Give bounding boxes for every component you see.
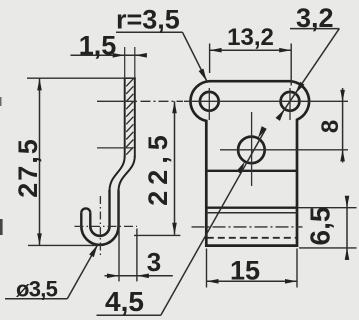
dim 15 line <box>207 280 298 282</box>
svg-text:3: 3 <box>147 247 161 277</box>
hook U-bend outer arc <box>81 226 118 245</box>
center hole horizontal centerline <box>220 149 348 151</box>
dim 1,5 arrows <box>113 53 125 58</box>
strip upper left wall <box>124 78 126 157</box>
top holes horizontal centerline (reference line across views) <box>97 100 137 102</box>
center hole vertical centerline <box>251 112 253 186</box>
svg-text:13,2: 13,2 <box>227 24 274 51</box>
svg-text:6,5: 6,5 <box>305 207 336 246</box>
hook tip rounded cap <box>81 208 90 212</box>
svg-text:8: 8 <box>317 120 344 133</box>
dim 6,5 extension bottom <box>299 247 357 249</box>
svg-text:r=3,5: r=3,5 <box>116 5 180 35</box>
dim 13,2 extension lines <box>209 44 211 74</box>
leader 4,5 <box>97 314 161 316</box>
hook U-bend inner arc <box>90 226 109 236</box>
plate outline <box>190 81 309 245</box>
svg-text:15: 15 <box>230 256 260 286</box>
bend axis dash-dot line <box>192 226 303 228</box>
svg-text:22,5: 22,5 <box>143 129 173 206</box>
dim 6,5 line <box>346 196 348 260</box>
leader 3,2 <box>290 28 339 30</box>
top-left hole vertical centerline <box>208 88 210 120</box>
S-bend right wall <box>119 156 135 191</box>
svg-text:3,2: 3,2 <box>296 3 334 33</box>
bend line 3 <box>206 212 297 214</box>
dim 22,5 extension bottom <box>134 234 180 236</box>
bend line 1 <box>206 170 297 172</box>
dim 27,5 line <box>39 78 41 245</box>
strip upper right wall <box>134 78 136 157</box>
dim 13,2 arrows <box>210 48 222 53</box>
svg-text:4,5: 4,5 <box>105 286 144 317</box>
dim 3 arrows <box>107 274 119 279</box>
hook tip left wall <box>80 213 82 227</box>
dim 27,5 extension bottom <box>28 244 97 246</box>
dim 8 arrows <box>340 90 345 102</box>
lower strip right wall <box>117 190 119 226</box>
dim 22,5 arrows <box>172 101 177 113</box>
lower strip left wall <box>108 190 110 226</box>
scan edge smudges <box>0 97 2 106</box>
dim 6,5 extension top (continuation of bend line 2) <box>298 207 357 209</box>
dim 3 line <box>105 275 173 277</box>
top-right hole <box>281 92 300 111</box>
S-bend left wall <box>110 156 125 191</box>
bend line 2 <box>206 207 298 209</box>
stub line crossing strip at hole height <box>97 147 133 149</box>
dim 27,5 extension top <box>27 77 135 79</box>
svg-text:ø3,5: ø3,5 <box>16 277 58 302</box>
hook tip right wall <box>89 213 91 227</box>
strip top edge <box>124 77 136 79</box>
svg-text:27,5: 27,5 <box>13 137 43 198</box>
hidden hook bottom dashed line <box>207 237 297 239</box>
hatching of strip section <box>126 79 133 155</box>
dim 8 line <box>342 88 344 163</box>
dim 15 arrows <box>207 279 219 284</box>
top-right hole vertical centerline <box>289 88 291 120</box>
dim 1,5 extension lines <box>124 47 126 78</box>
leader diameter 3,5 <box>5 298 67 300</box>
hook horizontal centerline <box>75 225 138 227</box>
hook vertical centerline <box>99 196 101 256</box>
center hole <box>238 137 265 164</box>
leader r=3,5 <box>116 31 183 33</box>
dim 6,5 arrows <box>345 196 350 208</box>
dim 13,2 line <box>210 49 292 51</box>
dim 22,5 line <box>174 101 176 235</box>
dim 3 extension lines <box>118 192 120 281</box>
top-left hole <box>200 92 219 111</box>
dim 1,5 line <box>71 54 147 56</box>
dim 15 extension lines <box>206 249 208 288</box>
svg-text:1,5: 1,5 <box>79 31 117 61</box>
dim 27,5 arrows <box>37 78 42 90</box>
